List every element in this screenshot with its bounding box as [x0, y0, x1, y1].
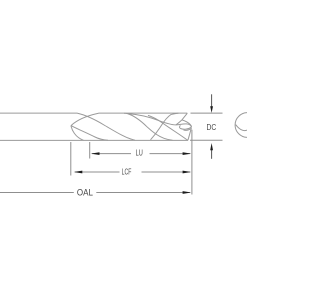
svg-text:DC: DC	[207, 122, 217, 132]
svg-text:LU: LU	[136, 148, 143, 158]
svg-text:LCF: LCF	[122, 166, 132, 176]
svg-text:OAL: OAL	[77, 187, 93, 197]
